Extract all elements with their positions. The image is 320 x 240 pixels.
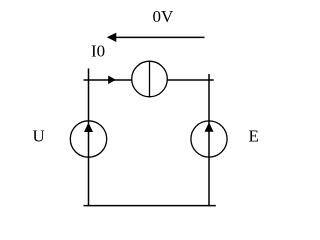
svg-text:E: E: [249, 127, 259, 146]
svg-text:U: U: [33, 127, 45, 146]
svg-text:I0: I0: [91, 42, 105, 61]
svg-text:0V: 0V: [153, 7, 175, 26]
